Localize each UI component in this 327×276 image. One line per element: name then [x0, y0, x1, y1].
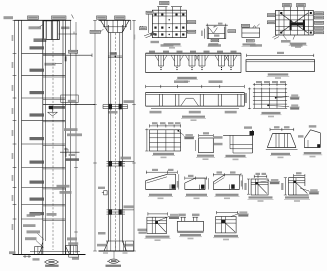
- column K1 base haunches: [39, 246, 43, 255]
- detail D14 clip: [172, 184, 176, 188]
- detail D1 left extension line: [148, 15, 150, 34]
- column K1 base stiffener left: [35, 247, 42, 255]
- column K1 connection cross at 150: [60, 151, 80, 153]
- detail D16 clip: [231, 184, 235, 188]
- column K1 dark label below cross: [65, 158, 79, 161]
- detail D1 internal grid: [158, 10, 160, 37]
- detail D5 title: [177, 77, 197, 79]
- angle mark between K2 and D1: [140, 26, 143, 29]
- column K1 base plate top line: [30, 250, 80, 252]
- column K1 label inside shaft upper: [45, 63, 56, 66]
- detail D4 brace plan outer: [276, 10, 314, 35]
- column K1 left dimension rail: [14, 20, 16, 254]
- detail D1 break marks bottom-left: [144, 32, 154, 36]
- detail D7 labels below: [150, 111, 162, 114]
- tick on K2 left rail at crane level: [91, 54, 93, 58]
- detail D13 title: [304, 152, 322, 154]
- detail D15 right dim: [208, 178, 210, 189]
- column K2 base trapezoid: [106, 240, 125, 242]
- detail D8 bolts and leaders: [275, 97, 277, 99]
- detail D2 section body: [206, 27, 208, 39]
- column K1 shaft right face pair: [62, 20, 64, 254]
- detail D7 beam labels top: [174, 80, 188, 83]
- column K1 section bubble 1: [46, 260, 58, 265]
- detail D16 gusset shape: [213, 189, 239, 191]
- column K2 base line: [99, 250, 135, 252]
- column K1 weld symbol below splice: [48, 112, 58, 116]
- detail D17 title: [249, 196, 273, 198]
- detail D5 top tags: [149, 51, 155, 53]
- detail D2 title: [208, 43, 218, 45]
- detail D7 stiffeners: [158, 94, 160, 106]
- detail D3 title: [243, 43, 256, 45]
- detail D7 dim line: [146, 86, 245, 88]
- detail D7 title: [182, 116, 205, 118]
- column K1 base line: [13, 254, 86, 256]
- detail D3 section outer: [242, 28, 260, 37]
- detail D14 right dim: [178, 174, 180, 189]
- detail D15 gusset shape: [185, 189, 205, 191]
- detail D14 gusset shape: [146, 189, 176, 191]
- column K2 right dim rail: [133, 20, 135, 251]
- detail D21 title: [214, 235, 238, 237]
- detail D4 H-core: [290, 20, 292, 30]
- column K1 elevation-label top-left: [4, 16, 14, 19]
- detail D18 corner gusset: [287, 178, 289, 195]
- detail D17 leader label: [258, 181, 269, 183]
- detail D4 stubs top: [283, 7, 285, 11]
- detail D8 grid: [253, 88, 287, 90]
- detail D5 lower bolt marks: [160, 67, 161, 68]
- detail D12 dim line: [270, 129, 294, 131]
- detail D5 runway beam labels top: [161, 44, 174, 47]
- detail D20 title: [180, 234, 201, 236]
- column K1 dim rail rotated numbers: [12, 35, 14, 41]
- detail D16 title: [216, 194, 239, 196]
- detail D6 beam plan rect: [246, 60, 315, 72]
- column K1 top labels: [28, 16, 39, 19]
- column K1 bracket labels lower: [57, 185, 70, 188]
- detail D17 corner gusset: [251, 179, 268, 195]
- detail D13 labels: [309, 125, 317, 127]
- detail D4 diagonals: [280, 13, 308, 33]
- column K1 bracket labels right mid: [64, 128, 78, 131]
- column K1 shaft left face: [42, 20, 44, 254]
- detail D4 side tags: [267, 14, 275, 17]
- column K1 base region labels: [30, 213, 41, 216]
- detail D9 title: [153, 153, 174, 155]
- detail D7 middle hump: [181, 98, 199, 106]
- detail D4 title: [290, 43, 307, 45]
- detail D14 title: [149, 194, 172, 196]
- detail D5 runway beam body: [146, 52, 241, 54]
- detail D20 stubs: [181, 217, 183, 221]
- detail D9 grid: [150, 130, 181, 151]
- column K2 shaft label above base: [98, 232, 106, 235]
- detail D18 title: [285, 196, 309, 198]
- detail D10 title: [197, 155, 214, 157]
- column K1 beam connection line mid: [61, 95, 78, 103]
- detail D1 bolts: [154, 13, 156, 15]
- detail D16 dim line: [213, 174, 241, 176]
- column K2 shaft lines: [107, 25, 109, 241]
- detail D16 right dim: [242, 175, 244, 190]
- detail D15 dim line: [185, 177, 207, 179]
- column K1 batten rungs: [22, 52, 66, 54]
- detail D19 dim line: [148, 213, 168, 215]
- detail D15 clip: [201, 185, 204, 189]
- detail D1 center dots: [169, 19, 170, 20]
- detail D2 dim line: [206, 24, 228, 26]
- detail D19 title: [146, 236, 170, 238]
- detail D17 dim line: [254, 175, 267, 177]
- detail D7 beam body: [146, 91, 245, 93]
- column K1 right dim rail: [75, 22, 77, 253]
- detail D5 hang marks: [155, 55, 159, 61]
- column K2 section bubble: [113, 251, 115, 259]
- column K2 top labels: [97, 16, 107, 19]
- column K2 shaft tick mark upper: [108, 55, 122, 57]
- detail D3 tags: [241, 24, 249, 27]
- detail D21 base plan: [216, 217, 237, 233]
- detail D21 dim line: [217, 212, 238, 214]
- column K1 right rail: [70, 20, 72, 254]
- detail D19 base plan: [147, 217, 167, 233]
- column K1 cap box: [44, 21, 60, 40]
- detail D3 top notch: [253, 26, 255, 28]
- column K1 base left label: [9, 251, 16, 254]
- column K1 label below cap: [34, 38, 47, 42]
- detail D1 splice plan outer: [152, 10, 186, 37]
- column K2 bracket third: [107, 209, 126, 211]
- detail D1 title: [164, 43, 181, 45]
- detail D9 corner dot and label: [177, 130, 179, 132]
- column K1 left flange lines: [18, 20, 20, 254]
- detail D18 leader label: [300, 188, 309, 191]
- detail D18 dim line: [294, 175, 305, 177]
- column K2 bracket mid: [103, 104, 128, 106]
- detail D2 V hatch weld: [209, 28, 213, 33]
- detail D20 stub labels: [178, 214, 186, 217]
- column K2 left dim rail: [94, 20, 96, 251]
- detail D13 chamfer block: [304, 130, 310, 139]
- detail D6 title: [268, 73, 289, 75]
- column K2 cap: [101, 20, 109, 32]
- detail D15 title: [186, 194, 207, 196]
- detail D9 dim line: [150, 125, 181, 127]
- column K1 shaft centerline: [52, 40, 54, 250]
- column K1 top chord line: [15, 19, 72, 21]
- detail D4 bolts: [280, 12, 282, 14]
- detail D8 title: [262, 112, 281, 114]
- detail D14 dim line: [146, 171, 177, 173]
- detail D1 stubs top: [158, 7, 160, 11]
- detail D2 left dim: [204, 29, 206, 39]
- detail D1 labels: [160, 1, 170, 4]
- detail D11 labels: [214, 136, 223, 139]
- detail D19 leader label: [158, 217, 169, 221]
- column K2 top chord line: [99, 19, 131, 21]
- detail D8 dim lines: [253, 84, 287, 86]
- column K1 base left sub-label: [33, 258, 40, 260]
- column K2 centerline: [114, 33, 116, 248]
- detail D2 labels: [214, 35, 219, 37]
- column K1 crane beam line upper: [43, 54, 92, 56]
- column K1 anchor bolts below base: [23, 255, 31, 257]
- column K1 labels right of cap: [61, 27, 70, 30]
- column K1 level labels: [30, 46, 45, 49]
- column K1 splice plate stack: [49, 105, 66, 107]
- detail D6 dim line: [247, 54, 314, 56]
- rail text near K2: [133, 35, 135, 40]
- label near column K2 base right: [138, 229, 147, 231]
- detail D12 title: [271, 153, 290, 155]
- column K2 base side bracket: [126, 241, 134, 251]
- detail D11 bracket: [223, 134, 252, 136]
- detail D4 bottom leaders: [283, 35, 287, 40]
- column K1 cap leader label: [38, 25, 44, 29]
- detail D4 internal lines: [278, 10, 280, 35]
- detail D10 dim line: [199, 135, 214, 137]
- detail D21 leader label: [231, 214, 239, 217]
- detail D12 table shape: [273, 133, 291, 135]
- detail D11 title: [226, 155, 246, 157]
- detail D5 stiffener clusters: [158, 55, 160, 66]
- column K2 bracket lower: [107, 161, 126, 163]
- detail D10 square plate: [199, 138, 214, 153]
- column K2 left plate detail: [104, 191, 107, 195]
- column K1 base stiffener right: [66, 246, 78, 255]
- detail D20 beam rect: [177, 221, 203, 231]
- column K2 cap label left: [90, 30, 101, 33]
- detail D6 beam plan labels top: [250, 44, 262, 47]
- column K1 base leader arrows: [36, 241, 44, 248]
